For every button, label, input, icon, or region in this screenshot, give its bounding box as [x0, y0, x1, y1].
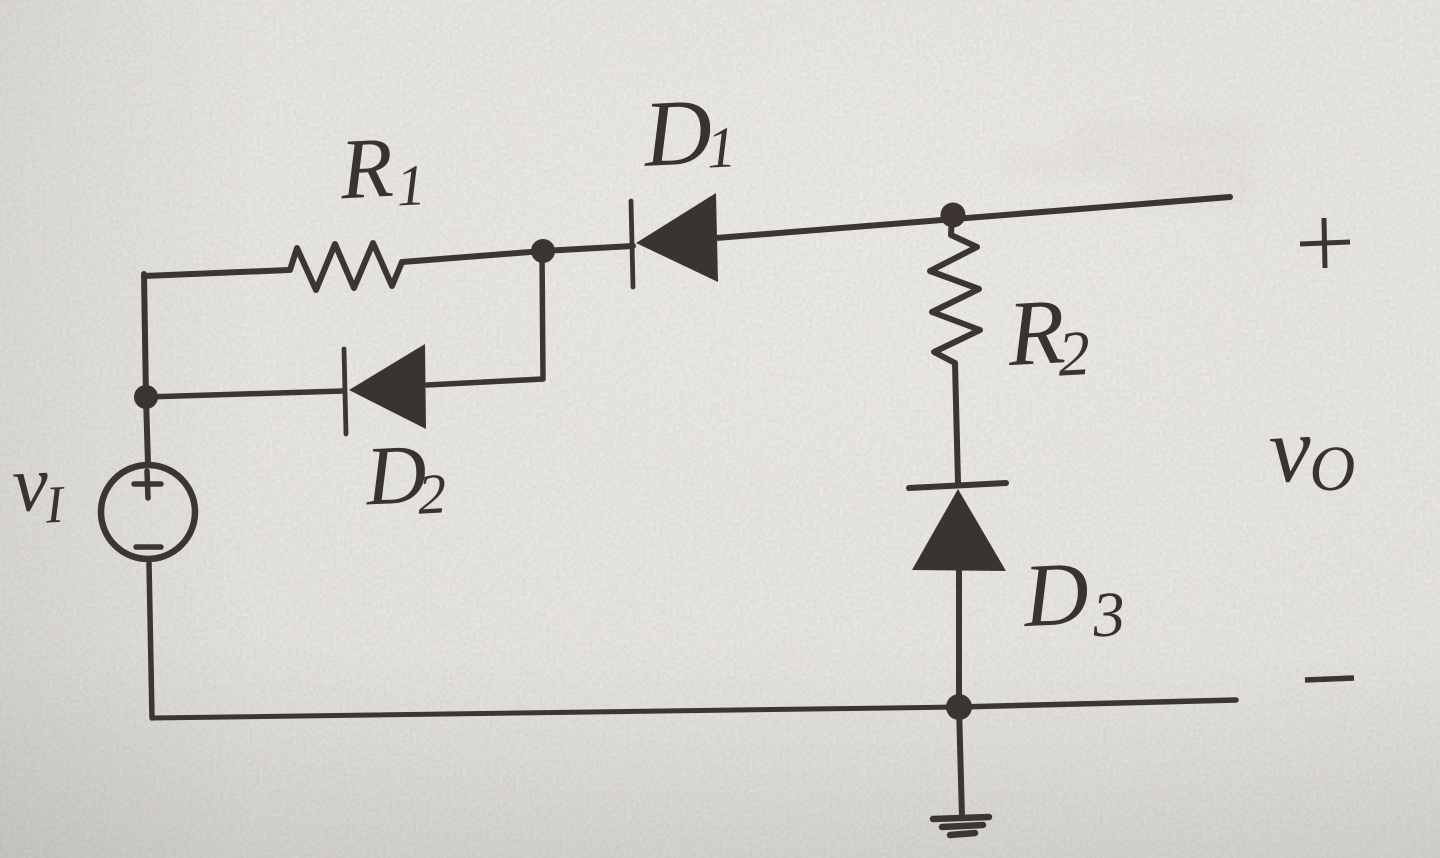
- diode D1: [631, 193, 718, 287]
- wire bottom node to ground: [959, 707, 962, 818]
- diode D3: [909, 483, 1006, 571]
- label vO: [1266, 395, 1357, 507]
- node left junction dot: [134, 385, 158, 409]
- plus terminal: [1300, 218, 1350, 268]
- wire D2 left: [146, 391, 343, 397]
- wire D2 up to node A: [542, 251, 543, 379]
- wire R1 to node A: [402, 251, 543, 262]
- resistor R2: [930, 215, 980, 363]
- node A junction dot: [531, 239, 555, 263]
- wire node A to D1: [543, 246, 633, 251]
- label vI: [10, 439, 67, 537]
- label R1: [337, 117, 427, 221]
- wire left vertical: [144, 274, 148, 464]
- voltage source vI: [101, 465, 195, 559]
- wire D2 right: [427, 379, 543, 385]
- minus terminal: [1305, 678, 1354, 680]
- ground: [933, 817, 989, 835]
- wire bottom right: [959, 700, 1236, 707]
- label D3: [1019, 542, 1126, 654]
- resistor R1: [290, 243, 402, 290]
- wire R2 to D3: [955, 363, 958, 483]
- wire bottom left: [152, 707, 959, 718]
- label D1: [639, 78, 737, 187]
- wire D1 to top right: [716, 197, 1230, 238]
- node bottom junction dot: [946, 694, 972, 720]
- node top-right junction dot: [941, 203, 966, 228]
- wire top-left horizontal: [144, 270, 289, 276]
- wire source bottom: [149, 563, 152, 718]
- label D2: [362, 426, 448, 529]
- label R2: [1004, 279, 1092, 392]
- wire D3 to bottom node: [956, 569, 962, 708]
- diode D2: [344, 344, 426, 434]
